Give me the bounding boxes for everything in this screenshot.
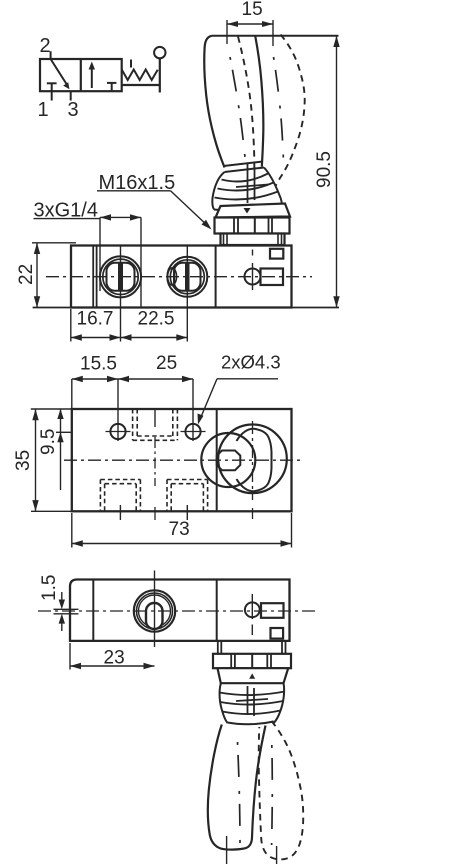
bottom hex nut xyxy=(213,654,291,668)
label 3xG1/4 underline and dim xyxy=(34,218,101,220)
bottom cap trapezoid xyxy=(218,668,289,683)
svg-text:2: 2 xyxy=(40,35,51,57)
bottom pilot circle xyxy=(245,602,260,617)
solid knob inner dashed contour xyxy=(230,57,246,162)
bottom port circles xyxy=(134,590,175,631)
mounting hole 2 xyxy=(185,424,200,439)
dim 22 top extension xyxy=(32,242,76,244)
boot ring line 3 xyxy=(215,192,279,200)
bottom boot ring line 1 xyxy=(220,692,285,696)
bottom boot right edge xyxy=(274,684,284,724)
boot ring line 1 xyxy=(222,174,269,182)
svg-text:25: 25 xyxy=(156,353,177,374)
port 2 stub xyxy=(50,51,52,59)
boot white mask xyxy=(212,167,283,213)
lever top line xyxy=(212,35,339,37)
bottom cap indicator xyxy=(249,673,255,678)
svg-text:15: 15 xyxy=(242,0,263,20)
top view vertical centerline xyxy=(154,437,156,486)
bottom boot white mask xyxy=(219,684,286,724)
knob bottom rim xyxy=(224,162,264,167)
port 1 centerline vertical xyxy=(120,246,122,342)
svg-text:22: 22 xyxy=(16,264,37,285)
bottom solid knob xyxy=(208,725,266,850)
bottom view body xyxy=(70,580,290,641)
port 2 left bump xyxy=(168,268,177,285)
bottom view divider right xyxy=(216,580,218,641)
bottom boot bottom edge xyxy=(228,722,274,725)
top view horizontal centerline xyxy=(64,459,303,461)
top view center tick xyxy=(154,409,156,427)
valve symbol boxes xyxy=(40,59,122,91)
2xO4.3 leader xyxy=(217,378,278,380)
collar xyxy=(221,234,285,246)
boot right edge xyxy=(264,168,282,208)
blocked port T right box xyxy=(107,82,116,84)
dim 73 xyxy=(71,513,73,548)
stem hexagon xyxy=(217,451,241,471)
port 1 stub xyxy=(51,91,53,100)
lever shaft xyxy=(159,59,161,93)
dim 16.7 / 22.5 xyxy=(70,309,72,342)
svg-text:16.7: 16.7 xyxy=(77,309,114,330)
lever knob circle xyxy=(154,47,165,58)
front body divider lines xyxy=(92,246,94,308)
boss circle xyxy=(201,433,255,487)
front body rectangle xyxy=(71,246,292,308)
svg-text:15.5: 15.5 xyxy=(80,354,117,375)
bottom small square xyxy=(271,628,284,639)
front horizontal centerline xyxy=(46,276,312,278)
bottom boot stem lines xyxy=(247,686,249,715)
boot stem lines xyxy=(247,163,249,203)
dim 9.5 xyxy=(56,431,72,433)
knob centerline ticks xyxy=(226,836,228,864)
nut center line xyxy=(254,218,256,245)
hidden bottom port 1 dashed xyxy=(100,480,140,512)
svg-text:3xG1/4: 3xG1/4 xyxy=(34,200,98,222)
svg-text:9.5: 9.5 xyxy=(38,429,59,455)
dim 1.5 xyxy=(54,608,79,610)
dim 22 line xyxy=(36,243,38,308)
svg-text:1: 1 xyxy=(38,99,49,121)
spring xyxy=(122,70,158,81)
bottom port vertical centerline xyxy=(154,571,156,648)
hidden bottom port 2 dashed xyxy=(167,480,208,512)
pilot vertical centerline xyxy=(252,250,254,256)
boot ring line 2 xyxy=(218,183,274,191)
dim 15 extension ticks xyxy=(226,20,228,44)
bottom dashed knob xyxy=(259,721,304,859)
bottom boot ring line 3 xyxy=(222,711,280,715)
port 2 circles xyxy=(167,257,207,297)
dashed knob inner dashed contour xyxy=(274,57,284,162)
cap indicator triangle xyxy=(244,208,251,214)
svg-text:23: 23 xyxy=(104,648,125,669)
spring top stub xyxy=(130,60,132,68)
svg-text:73: 73 xyxy=(169,519,190,540)
boot bottom edge xyxy=(214,208,282,212)
neck below body xyxy=(217,641,219,654)
hex nut M16 xyxy=(215,218,290,234)
dashed knob outline xyxy=(238,37,254,169)
pilot rectangle xyxy=(261,269,284,286)
svg-text:1.5: 1.5 xyxy=(39,575,60,601)
boot left edge xyxy=(212,172,224,210)
port 1 circles xyxy=(100,256,141,297)
svg-text:M16x1.5: M16x1.5 xyxy=(99,172,176,194)
pilot circle xyxy=(245,269,261,285)
bottom pilot rectangle xyxy=(261,603,284,618)
svg-text:35: 35 xyxy=(13,450,34,471)
knob top circle xyxy=(218,425,287,494)
blocked port T left box xyxy=(47,82,57,84)
top view divider xyxy=(216,409,218,511)
svg-text:22.5: 22.5 xyxy=(138,309,175,330)
solid knob outline xyxy=(204,36,224,168)
lever arm xyxy=(122,84,160,86)
bottom solid knob inner dashes xyxy=(238,742,241,845)
mounting hole 1 xyxy=(110,424,125,439)
port 3 stub xyxy=(70,91,72,100)
dim 35 xyxy=(31,408,72,410)
bottom horizontal centerline xyxy=(38,610,317,612)
circles vertical centerline xyxy=(252,421,254,500)
port 2 centerline vertical xyxy=(186,246,188,342)
dim 23 xyxy=(69,643,71,670)
bottom dashed knob inner dashes xyxy=(271,745,274,845)
bottom view divider left xyxy=(92,580,94,641)
bottom boot left edge xyxy=(220,684,228,724)
dim 90.5 line xyxy=(336,36,338,308)
hidden port top dashed xyxy=(133,409,178,440)
dim 15.5 / 25 line xyxy=(71,379,73,409)
top view body xyxy=(72,409,292,511)
small square top right xyxy=(270,249,283,259)
svg-text:2xØ4.3: 2xØ4.3 xyxy=(221,352,281,373)
label M16x1.5 leader xyxy=(97,190,171,192)
bottom boot ring line 2 xyxy=(220,701,283,705)
front body bottom edge extended xyxy=(33,307,339,309)
flow path diagonal with arrow xyxy=(51,59,67,84)
cap trapezoid xyxy=(216,204,291,218)
svg-text:90.5: 90.5 xyxy=(314,151,335,188)
valve symbol divider xyxy=(80,59,82,91)
right box up arrow xyxy=(91,66,93,88)
paddle top outline xyxy=(237,429,272,491)
svg-text:3: 3 xyxy=(68,99,79,121)
dim 15 line xyxy=(227,23,273,25)
